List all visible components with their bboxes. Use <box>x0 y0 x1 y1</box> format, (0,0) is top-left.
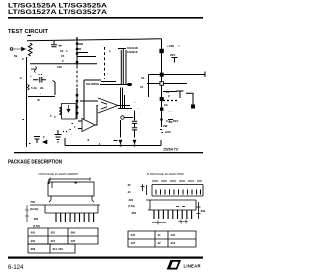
svg-text:2: 2 <box>168 94 170 98</box>
wire: IC pin bus lower <box>76 88 78 119</box>
schematic tiny labels <box>14 43 180 146</box>
svg-text:.018: .018 <box>170 241 176 245</box>
N top dim dashed line <box>152 180 202 182</box>
op-amp U1 open arrow <box>98 98 118 113</box>
pot circle tap <box>121 116 124 119</box>
RC box B1 <box>62 104 77 120</box>
filled square J3 <box>160 97 164 101</box>
J top dim line <box>50 178 90 181</box>
svg-text:..: .. <box>137 106 139 110</box>
dots lower left <box>20 78 55 120</box>
wire: IC pin bus upper <box>76 40 78 66</box>
svg-text:16: 16 <box>60 49 64 53</box>
node A junction <box>76 37 78 40</box>
N top pins <box>156 190 201 195</box>
J lead bend left <box>49 196 51 202</box>
wire: left y96.5 <box>28 96 55 98</box>
op-amp U2 <box>82 119 95 132</box>
polarized cap T symbol <box>172 58 178 63</box>
node dot <box>160 118 163 121</box>
svg-text:w50: w50 <box>164 130 171 134</box>
svg-text:=: = <box>178 44 180 48</box>
dash left of rail <box>114 140 118 142</box>
svg-text:.045: .045 <box>130 233 136 237</box>
svg-text:5.1k: 5.1k <box>31 86 37 90</box>
bottom-left dots <box>29 137 45 144</box>
N bottom dim marks <box>152 220 188 225</box>
svg-text:(19.94): (19.94) <box>30 207 38 211</box>
wire: pin tap y56.5 <box>77 56 96 58</box>
svg-text:.02: .02 <box>157 241 161 245</box>
wire: right rail vertical <box>161 39 163 122</box>
svg-text:.009: .009 <box>200 209 206 213</box>
wire: U2 feedback up <box>95 105 98 125</box>
wire: above arrow <box>80 100 98 102</box>
wire: pin stub y49 <box>77 48 81 50</box>
wire: bottom rail <box>65 145 161 147</box>
section rule <box>14 152 203 153</box>
svg-text:.: . <box>34 47 35 51</box>
svg-text:51: 51 <box>140 85 144 89</box>
svg-text:1N4916: 1N4916 <box>127 50 138 54</box>
svg-text:6-124: 6-124 <box>8 265 24 271</box>
svg-text:.1: .1 <box>98 142 101 146</box>
svg-text:N PACKAGE 16-LEAD PDIP: N PACKAGE 16-LEAD PDIP <box>147 172 184 176</box>
arrow down 2 <box>133 140 136 144</box>
dots under box B1 <box>70 124 76 130</box>
node junctions on rail <box>119 144 121 146</box>
svg-text:51: 51 <box>141 76 145 80</box>
svg-text:.200: .200 <box>30 239 36 243</box>
left arrowhead mark <box>43 140 48 144</box>
svg-text:.25: .25 <box>127 183 131 187</box>
svg-text:(7.62): (7.62) <box>128 204 135 208</box>
right bracket resistor RL <box>186 93 193 105</box>
wire: rail left corner up <box>64 138 66 146</box>
svg-text:.125: .125 <box>70 239 76 243</box>
capacitor C2 left <box>33 77 46 83</box>
svg-text:2W: 2W <box>163 124 168 128</box>
svg-text:.. ..: .. .. <box>168 109 172 113</box>
N right dim <box>197 202 201 219</box>
arrow down inside B1 <box>67 105 70 112</box>
svg-text:.: . <box>107 63 108 67</box>
left cluster: pot arrow <box>31 67 37 73</box>
svg-text:.01: .01 <box>157 233 161 237</box>
wire: pin stub y44 <box>77 43 83 45</box>
wire: triple verticals below <box>121 88 125 109</box>
N table <box>128 231 196 247</box>
J pin1 mark <box>51 182 53 188</box>
capacitor C1 <box>51 41 62 47</box>
svg-text:(7.62): (7.62) <box>33 224 40 228</box>
svg-text:.785: .785 <box>30 200 36 204</box>
wire: left border <box>26 57 28 147</box>
svg-text:LT/SG1527A LT/SG3527A: LT/SG1527A LT/SG3527A <box>8 9 108 16</box>
dots row <box>63 131 67 133</box>
capacitor C6 branch <box>132 111 137 138</box>
svg-text:2k: 2k <box>40 86 44 90</box>
svg-text:2: 2 <box>62 59 64 63</box>
svg-text:.: . <box>107 71 108 75</box>
pin stub squares on bus <box>76 43 78 45</box>
svg-text:.: . <box>102 43 103 47</box>
J side pins <box>56 213 94 222</box>
svg-text:SG1525A: SG1525A <box>86 82 100 86</box>
svg-text:.100: .100 <box>170 233 176 237</box>
N top view body <box>152 185 203 197</box>
wire: inner vertical pair top bar <box>118 48 126 50</box>
svg-text:20V: 20V <box>170 53 175 57</box>
svg-text:.13: .13 <box>127 190 131 194</box>
wire: right tap y74.5 <box>149 72 206 78</box>
svg-text:15: 15 <box>61 54 65 58</box>
open square junction <box>160 82 164 86</box>
wire: output bar <box>118 108 132 110</box>
wire: arrow output <box>118 105 130 107</box>
wire: pin stub y52.5 <box>77 52 88 54</box>
J pin1 dot <box>75 182 78 184</box>
cap symbol right lower <box>168 120 173 123</box>
svg-text:LINEAR: LINEAR <box>184 263 201 268</box>
resistor R1 <box>29 43 33 56</box>
svg-text:TEST CIRCUIT: TEST CIRCUIT <box>8 29 48 35</box>
svg-text:10k: 10k <box>57 65 62 69</box>
filled square J2 on right rail <box>159 49 163 53</box>
svg-text:1525A TC: 1525A TC <box>163 148 179 152</box>
svg-text:50V: 50V <box>173 119 178 123</box>
wire: inner vertical pair <box>121 49 126 85</box>
svg-text:+: + <box>30 74 32 78</box>
wire: IC pin bus dashed mid <box>76 66 78 88</box>
J top view body <box>48 182 94 196</box>
arrow down 1 <box>119 140 122 144</box>
svg-text:.008: .008 <box>30 247 36 251</box>
svg-text:+VIN: +VIN <box>167 44 174 48</box>
J table <box>28 228 98 244</box>
N side body <box>148 200 196 210</box>
svg-text:.300: .300 <box>128 198 134 202</box>
wire: stub below <box>161 122 163 127</box>
N side view top <box>146 199 196 201</box>
header rule <box>8 17 203 19</box>
svg-text:.005: .005 <box>30 231 36 235</box>
J dim arrows left <box>25 205 29 222</box>
svg-text:.300: .300 <box>33 217 39 221</box>
svg-text:J PACKAGE 16-LEAD CERDIP: J PACKAGE 16-LEAD CERDIP <box>38 172 78 176</box>
junction blob <box>128 83 132 86</box>
J side view top line <box>30 204 100 206</box>
svg-text:.025: .025 <box>50 231 56 235</box>
svg-text:..: .. <box>70 132 72 136</box>
wire: U2 inputs <box>78 121 82 129</box>
svg-text:x: x <box>109 49 111 53</box>
corner bracket right <box>53 81 56 96</box>
wire: horizontal y84.5 <box>100 84 132 86</box>
resistor on B1 left <box>60 107 62 115</box>
wire: load top y91.5 <box>163 91 177 93</box>
DUT box SG1525A <box>84 80 116 102</box>
U2 to rail dot <box>88 139 90 141</box>
svg-text::.: :. <box>134 100 136 104</box>
VIN input terminal <box>10 48 13 51</box>
footer rule <box>8 257 203 259</box>
svg-text:PACKAGE DESCRIPTION: PACKAGE DESCRIPTION <box>8 160 62 166</box>
ground cap cluster left <box>55 130 62 142</box>
wire: right tap y83.5 <box>147 83 187 85</box>
svg-text:2: 2 <box>22 57 24 61</box>
N pin detail marks <box>176 206 185 208</box>
svg-text:1: 1 <box>66 49 68 53</box>
svg-text:.: . <box>140 111 141 115</box>
svg-text:.065: .065 <box>131 211 137 215</box>
svg-text:.060: .060 <box>70 231 76 235</box>
J lead bend right <box>92 196 94 202</box>
svg-text:0.1: 0.1 <box>166 119 171 123</box>
vertical T stub <box>177 91 184 98</box>
N dim arrows left <box>141 184 147 195</box>
svg-text:.125: .125 <box>130 241 136 245</box>
svg-text:5k: 5k <box>14 54 18 58</box>
load resistor dashes y100 <box>163 100 177 102</box>
svg-text:2A: 2A <box>164 103 169 107</box>
dots <box>39 74 43 76</box>
svg-text::: : <box>40 92 41 96</box>
svg-text:.015: .015 <box>50 239 56 243</box>
J side body <box>45 205 98 213</box>
wire: pin tap y64.2 <box>30 63 97 65</box>
resistor squiggle left row <box>28 85 30 91</box>
LT logo mark <box>167 260 201 270</box>
wire: branch down to arrow 1 <box>120 120 122 138</box>
svg-text:.014 .023: .014 .023 <box>52 247 63 251</box>
N side pins <box>154 210 192 219</box>
wire: transistor vertical <box>148 75 150 98</box>
label tick above rail <box>28 35 32 37</box>
dashed boundary of DUT <box>104 47 106 79</box>
wire: x84 continues <box>83 102 85 119</box>
wire: top supply rail <box>27 39 162 41</box>
wire: rail right corner up <box>160 140 162 146</box>
far-left bottom cap <box>34 137 40 144</box>
mark below <box>38 99 40 101</box>
filled junction <box>160 73 164 77</box>
square J4 <box>160 108 163 111</box>
